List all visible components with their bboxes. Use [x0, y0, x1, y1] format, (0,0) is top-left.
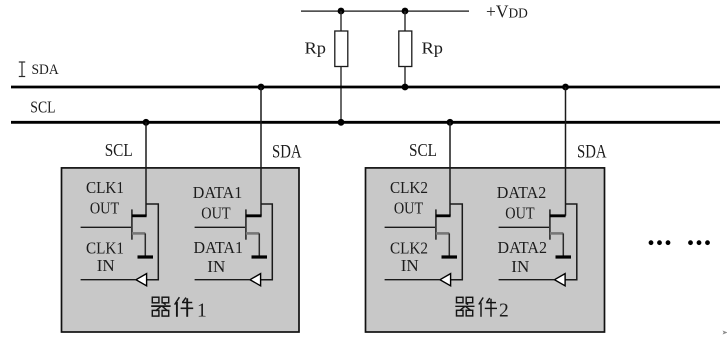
svg-text:SDA: SDA	[32, 62, 59, 78]
input buffer triangle	[136, 274, 147, 286]
drain bar	[246, 214, 262, 217]
node junction dot SCL-device1	[143, 119, 150, 126]
wire SCL bus down into device1	[145, 122, 147, 216]
svg-text:IN: IN	[401, 256, 419, 275]
器	[151, 297, 170, 316]
node junction dot VDD-Rp1	[338, 8, 345, 15]
ground bar	[442, 255, 458, 258]
wire source to ground	[448, 233, 450, 255]
gate/channel bar	[131, 209, 133, 239]
wire source to ground	[144, 233, 146, 255]
device 1 box	[62, 168, 300, 332]
wire SDA bus line	[11, 86, 720, 89]
input buffer triangle	[555, 274, 566, 286]
svg-text:OUT: OUT	[394, 199, 424, 218]
wire source to ground	[562, 233, 564, 255]
svg-text:DATA1: DATA1	[193, 183, 243, 202]
resistor Rp1	[335, 31, 348, 67]
wire +VDD supply rail	[301, 10, 469, 12]
gate lead wire CLK1 OUT	[81, 226, 132, 228]
wire DATA2 IN lead	[499, 279, 555, 281]
drain bar	[550, 214, 566, 217]
wire VDD to resistor Rp2	[404, 11, 406, 31]
svg-text:CLK2: CLK2	[390, 178, 428, 197]
resistor Rp2	[399, 31, 412, 67]
svg-text:CLK1: CLK1	[86, 239, 124, 258]
ground bar	[138, 255, 154, 258]
svg-text:SDA: SDA	[577, 143, 607, 163]
source bar	[436, 232, 449, 235]
svg-text:DATA1: DATA1	[194, 238, 244, 257]
input buffer triangle	[250, 274, 261, 286]
svg-text:2: 2	[499, 300, 509, 321]
wire resistor Rp2 to SDA bus	[404, 67, 406, 88]
wire SCL bus line	[11, 121, 720, 124]
node junction dot SDA-Rp2	[402, 84, 409, 91]
svg-text:1: 1	[197, 300, 207, 321]
wire source to ground	[258, 233, 260, 255]
wire branch to input buffer	[566, 204, 577, 280]
label 器件1 (drawn glyphs)	[151, 297, 193, 317]
drain bar	[132, 214, 147, 217]
ellipsis continuation dots right group	[688, 240, 710, 245]
svg-text:SCL: SCL	[409, 140, 437, 160]
件	[479, 298, 497, 317]
wire branch to input buffer	[261, 204, 272, 280]
node junction dot SCL-device2	[447, 119, 454, 126]
svg-text:OUT: OUT	[90, 199, 120, 218]
svg-text:OUT: OUT	[201, 204, 231, 223]
件	[175, 297, 194, 317]
gate lead wire DATA1 OUT	[195, 226, 246, 228]
transistor Q1 CLK driver device1	[81, 204, 159, 286]
svg-text:Rp: Rp	[422, 38, 444, 57]
svg-text:IN: IN	[97, 256, 115, 275]
wire SDA bus down into device1	[260, 87, 262, 216]
gate lead wire DATA2 OUT	[499, 226, 550, 228]
svg-text:OUT: OUT	[505, 204, 535, 223]
gate/channel bar	[435, 209, 437, 239]
stray cursor mark bottom-right	[723, 331, 727, 335]
gate/channel bar	[245, 209, 247, 239]
wire SCL bus down into device2	[449, 122, 451, 216]
label 器件2 (drawn glyphs)	[455, 297, 497, 317]
ground bar	[556, 255, 572, 258]
gate lead wire CLK2 OUT	[385, 226, 436, 228]
svg-text:DATA2: DATA2	[497, 183, 547, 202]
svg-text:SCL: SCL	[30, 98, 55, 117]
svg-text:DATA2: DATA2	[498, 238, 548, 257]
svg-text:Rp: Rp	[305, 38, 327, 57]
svg-text:IN: IN	[207, 257, 225, 276]
ground bar	[252, 255, 268, 258]
wire CLK2 IN lead	[385, 279, 440, 281]
node junction dot SDA-device2	[562, 84, 569, 91]
input buffer triangle	[440, 274, 451, 286]
svg-text:SCL: SCL	[105, 140, 133, 160]
node junction dot SDA-device1	[258, 84, 265, 91]
wire DATA1 IN lead	[195, 279, 250, 281]
transistor Q4 DATA driver device2	[499, 204, 577, 286]
wire SDA bus down into device2	[565, 87, 567, 216]
器	[455, 297, 474, 316]
gate/channel bar	[549, 209, 551, 239]
node junction dot VDD-Rp2	[402, 8, 409, 15]
svg-text:CLK2: CLK2	[390, 239, 428, 258]
source bar	[132, 232, 145, 235]
wire CLK1 IN lead	[81, 279, 136, 281]
wire branch to input buffer	[146, 204, 158, 280]
node junction dot SCL-Rp1	[338, 119, 345, 126]
text cursor I-beam artifact	[19, 62, 25, 77]
svg-text:SDA: SDA	[272, 143, 302, 163]
wire branch to input buffer	[450, 204, 462, 280]
svg-text:CLK1: CLK1	[86, 178, 124, 197]
transistor Q2 DATA driver device1	[195, 204, 273, 286]
transistor Q3 CLK driver device2	[385, 204, 463, 286]
device 2 box	[366, 168, 605, 332]
wire resistor Rp1 to SCL bus	[340, 67, 342, 123]
ellipsis continuation dots left group	[649, 240, 671, 245]
svg-text:IN: IN	[511, 257, 529, 276]
drain bar	[436, 214, 451, 217]
wire VDD to resistor Rp1	[340, 11, 342, 31]
source bar	[246, 232, 259, 235]
source bar	[550, 232, 563, 235]
